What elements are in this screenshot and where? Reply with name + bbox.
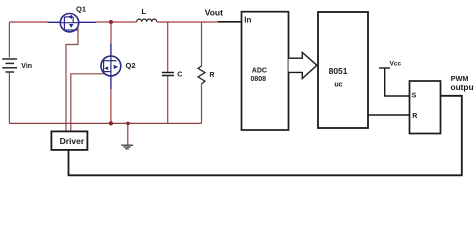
wire Vcc to S input	[385, 68, 410, 96]
wire battery top lead	[8, 22, 10, 58]
wire Q2 source to ground bus	[110, 89, 112, 123]
svg-text:8051: 8051	[329, 66, 348, 76]
wire node to Q2 drain	[110, 22, 112, 44]
wire Q2 gate to Driver	[71, 74, 104, 132]
resistor R	[198, 66, 205, 84]
svg-text:Vcc: Vcc	[390, 61, 402, 68]
junction dot Q2/bus	[109, 121, 113, 125]
wire Q1 to node	[96, 21, 111, 23]
svg-text:R: R	[209, 72, 214, 79]
svg-text:Vout: Vout	[205, 8, 223, 18]
capacitor C	[162, 73, 174, 76]
transistor Q2	[101, 44, 121, 90]
ground bus wire	[9, 122, 201, 124]
transistor Q1	[48, 14, 97, 32]
svg-text:R: R	[412, 113, 417, 120]
battery Vin	[2, 59, 17, 72]
svg-text:Vin: Vin	[21, 63, 32, 70]
ground	[121, 145, 133, 149]
wire node to inductor	[111, 21, 137, 23]
wire 8051 to R input	[368, 114, 410, 116]
svg-text:L: L	[142, 7, 147, 16]
Q1 drain pin	[79, 21, 96, 23]
wire battery bottom lead	[8, 73, 10, 124]
svg-text:Q1: Q1	[76, 5, 86, 14]
wire Vout to ADC In (black)	[218, 21, 242, 23]
svg-text:C: C	[177, 72, 182, 79]
wire top rail left: battery to Q1	[9, 21, 47, 23]
svg-text:0808: 0808	[251, 76, 267, 83]
resistor R top lead	[201, 22, 203, 66]
svg-text:Driver: Driver	[60, 136, 85, 146]
capacitor C top lead	[167, 22, 169, 72]
block arrow ADC to 8051	[289, 52, 317, 78]
ADC 0808 block	[242, 12, 289, 130]
SR latch block	[410, 81, 441, 134]
8051 uc block	[318, 12, 368, 128]
wire PWM output feedback to Driver	[69, 96, 462, 176]
resistor R bottom lead	[201, 84, 203, 123]
node junction dot	[109, 20, 113, 24]
wire Q1 gate to Driver	[66, 27, 78, 132]
svg-text:S: S	[412, 92, 417, 99]
Q1 source pin	[48, 21, 61, 23]
wire inductor to Vout	[157, 21, 218, 23]
capacitor C bottom lead	[167, 76, 169, 123]
svg-text:Q2: Q2	[126, 61, 136, 70]
svg-text:In: In	[244, 16, 251, 25]
inductor L	[137, 19, 157, 22]
junction dot ground/bus	[126, 122, 130, 126]
Vcc symbol	[379, 67, 390, 69]
Driver block	[51, 131, 87, 150]
svg-text:ADC: ADC	[252, 68, 267, 75]
Q2 drain pin	[110, 44, 112, 57]
wire bus to ground symbol	[127, 123, 129, 144]
svg-text:output: output	[451, 82, 474, 92]
Q2 source pin	[110, 76, 112, 89]
svg-text:uc: uc	[334, 81, 342, 88]
